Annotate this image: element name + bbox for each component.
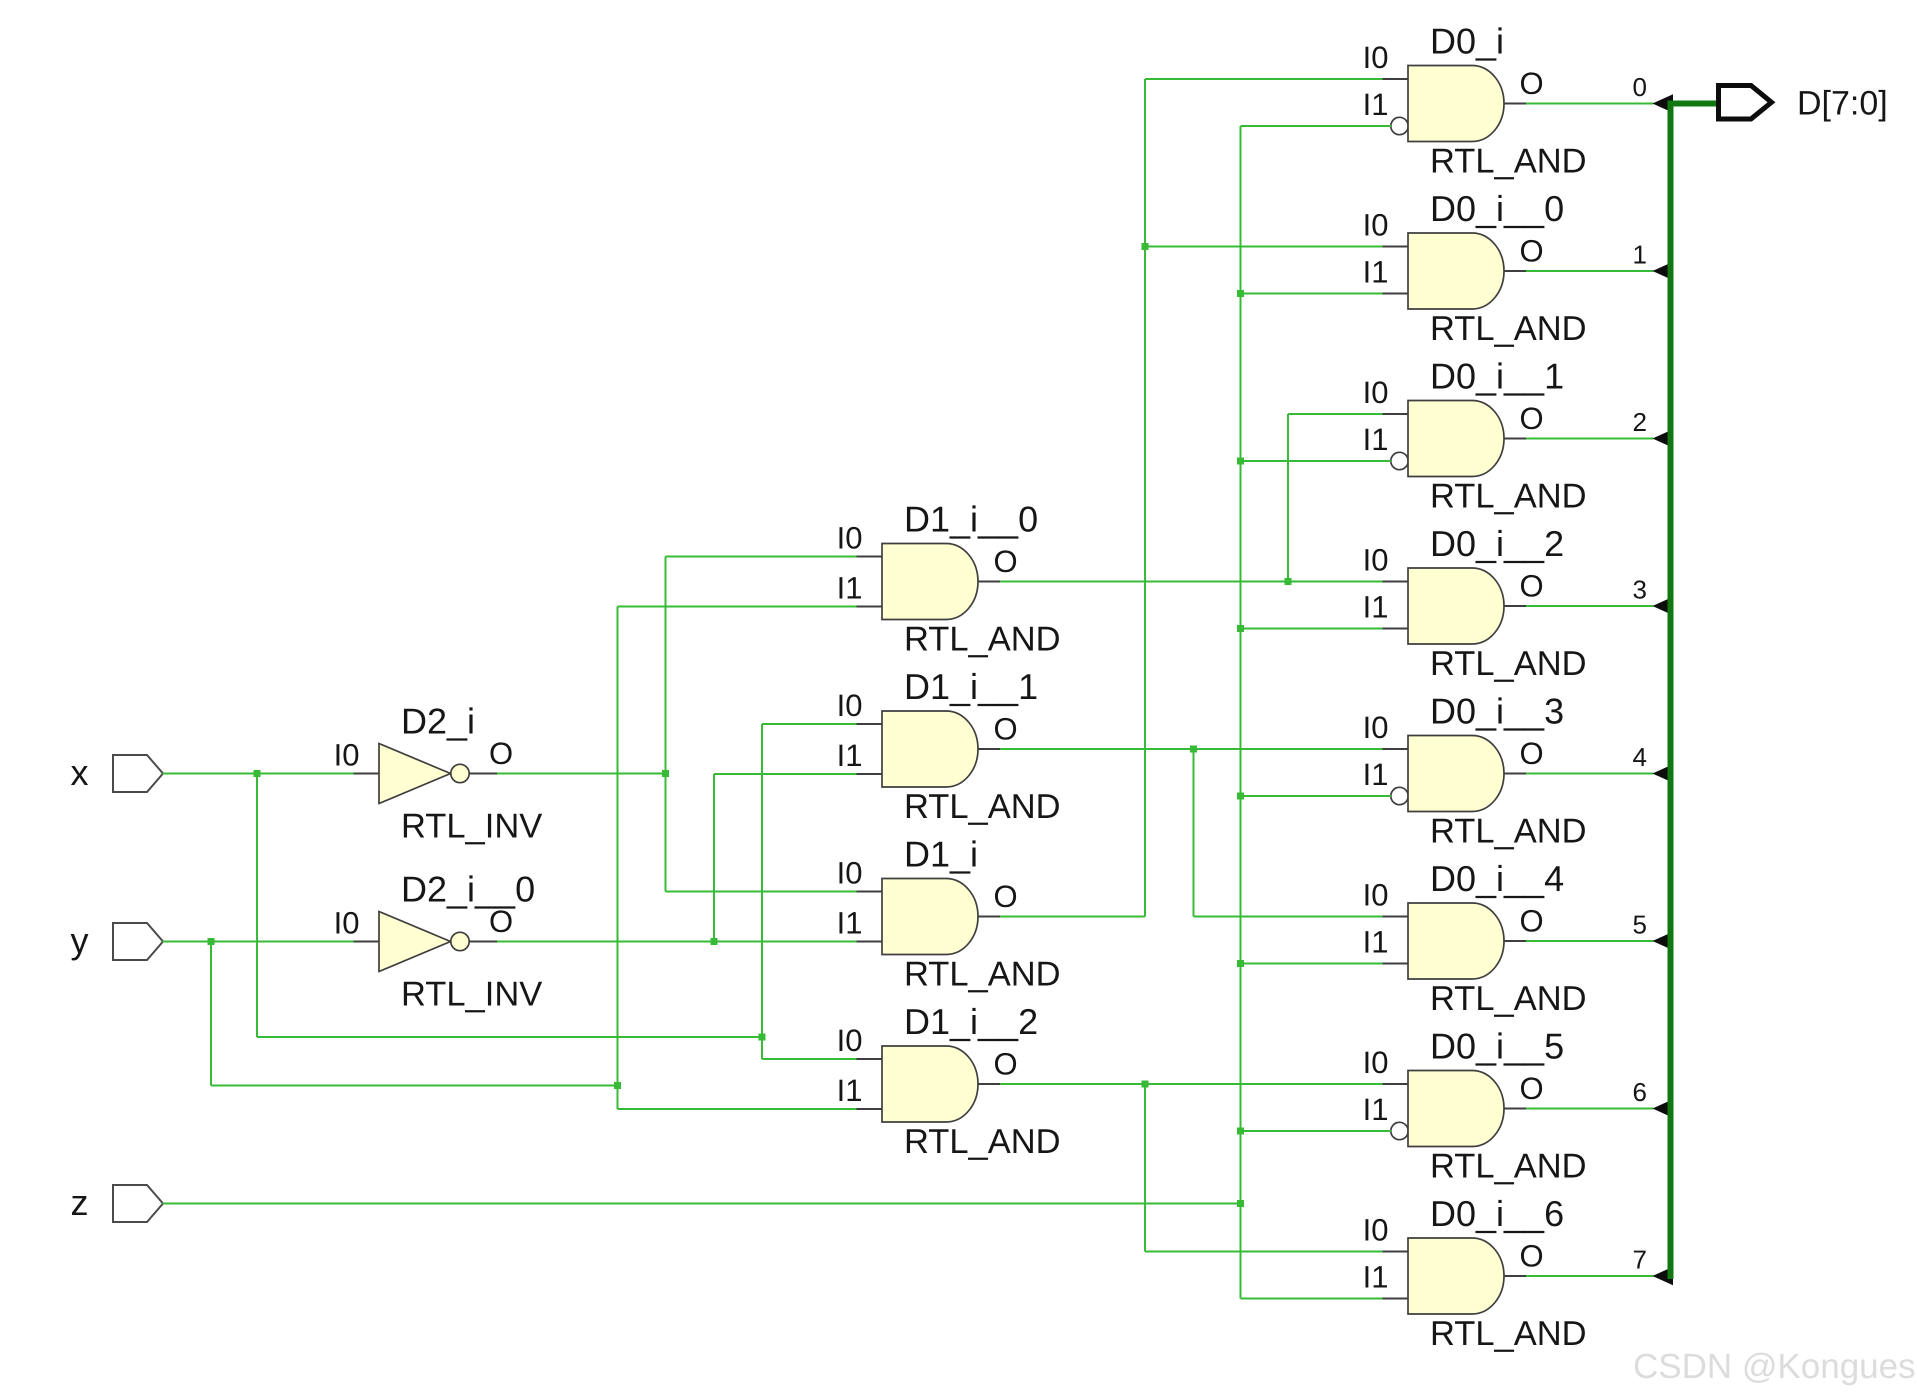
junction net z at trunk bbox=[1237, 1200, 1244, 1207]
bus tap arrowhead row 0 bbox=[1653, 94, 1674, 113]
svg-text:I0: I0 bbox=[837, 688, 863, 723]
AND gate D0_i__1 (RTL_AND) bbox=[1363, 356, 1587, 516]
svg-text:I1: I1 bbox=[837, 1073, 863, 1108]
AND gate D0_i__0 (RTL_AND) bbox=[1363, 188, 1587, 348]
svg-text:D[7:0]: D[7:0] bbox=[1797, 85, 1888, 123]
wire net z: vertical trunk along D0 column bbox=[1240, 126, 1242, 1299]
svg-text:RTL_AND: RTL_AND bbox=[904, 788, 1061, 826]
svg-text:I0: I0 bbox=[837, 1023, 863, 1058]
svg-text:O: O bbox=[1520, 1239, 1544, 1274]
svg-text:I0: I0 bbox=[1363, 40, 1389, 75]
svg-text:RTL_AND: RTL_AND bbox=[904, 956, 1061, 994]
svg-text:3: 3 bbox=[1633, 575, 1647, 605]
svg-text:D0_i__1: D0_i__1 bbox=[1430, 356, 1564, 397]
junction net z row6 bbox=[1237, 1128, 1244, 1135]
svg-text:I1: I1 bbox=[1363, 925, 1389, 960]
junction D1_i_out row1 bbox=[1142, 243, 1149, 250]
input port x bbox=[71, 752, 164, 793]
svg-text:RTL_AND: RTL_AND bbox=[1430, 1315, 1587, 1353]
svg-text:RTL_AND: RTL_AND bbox=[904, 621, 1061, 659]
bus tap arrowhead row 5 bbox=[1653, 932, 1674, 951]
wire net D1_i__2_out: into D0_i__6 pin I0 bbox=[1145, 1251, 1383, 1253]
svg-text:D0_i__2: D0_i__2 bbox=[1430, 523, 1564, 564]
svg-text:O: O bbox=[1520, 736, 1544, 771]
AND gate D1_i (RTL_AND) bbox=[837, 834, 1061, 994]
wire net notx: into D1_i__0 pin I0 bbox=[666, 556, 857, 558]
svg-text:I1: I1 bbox=[1363, 1260, 1389, 1295]
wire net y: horizontal run to D1 column bbox=[211, 1085, 618, 1087]
svg-text:I1: I1 bbox=[837, 738, 863, 773]
svg-text:x: x bbox=[71, 752, 89, 793]
wire D0 output row 5 to bus tap bbox=[1526, 940, 1654, 942]
svg-text:D0_i__4: D0_i__4 bbox=[1430, 858, 1564, 899]
svg-text:D0_i: D0_i bbox=[1430, 21, 1504, 62]
svg-text:RTL_AND: RTL_AND bbox=[1430, 1148, 1587, 1186]
svg-text:RTL_AND: RTL_AND bbox=[1430, 310, 1587, 348]
svg-text:6: 6 bbox=[1633, 1077, 1647, 1107]
bus tap arrowhead row 2 bbox=[1653, 429, 1674, 448]
svg-text:I1: I1 bbox=[1363, 87, 1389, 122]
svg-text:RTL_AND: RTL_AND bbox=[1430, 478, 1587, 516]
svg-text:RTL_AND: RTL_AND bbox=[1430, 645, 1587, 683]
AND gate D0_i__4 (RTL_AND) bbox=[1363, 858, 1587, 1018]
wire net z: into D0_i__4 pin I1 bbox=[1241, 963, 1383, 965]
wire net x: port x to inverter D2_i input bbox=[163, 773, 354, 775]
wire net y: vertical trunk bbox=[617, 607, 619, 1110]
svg-text:D0_i__3: D0_i__3 bbox=[1430, 691, 1564, 732]
wire net D1_i__0_out: east run to D0_i__2 pin I0 bbox=[1000, 581, 1383, 583]
wire D0 output row 3 to bus tap bbox=[1526, 605, 1654, 607]
svg-text:I1: I1 bbox=[1363, 1092, 1389, 1127]
wire net D1_i__2_out: east run to D0_i__5 pin I0 bbox=[1000, 1083, 1383, 1085]
svg-text:I1: I1 bbox=[1363, 590, 1389, 625]
output port D[7:0] bbox=[1719, 85, 1888, 123]
junction D1_i__1_out at branch bbox=[1190, 746, 1197, 753]
AND gate D0_i__6 (RTL_AND) bbox=[1363, 1193, 1587, 1353]
input port y bbox=[71, 920, 164, 961]
svg-text:4: 4 bbox=[1633, 742, 1647, 772]
wire net x: vertical trunk bbox=[761, 724, 763, 1059]
svg-text:1: 1 bbox=[1633, 240, 1647, 270]
svg-text:D1_i__2: D1_i__2 bbox=[904, 1001, 1038, 1042]
wire net z: into D0_i__1 pin I1 bubble bbox=[1241, 460, 1392, 462]
svg-text:O: O bbox=[994, 879, 1018, 914]
wire net notx: inverter D2_i output east bbox=[497, 773, 666, 775]
svg-text:D1_i: D1_i bbox=[904, 834, 978, 875]
svg-text:O: O bbox=[1520, 1071, 1544, 1106]
wire net D1_i__0_out: into D0_i__1 pin I0 bbox=[1288, 413, 1383, 415]
junction net y at vertical trunk bbox=[614, 1082, 621, 1089]
junction net z row1 bbox=[1237, 290, 1244, 297]
wire net z: into D0_i__0 pin I1 bbox=[1241, 293, 1383, 295]
wire D0 output row 6 to bus tap bbox=[1526, 1108, 1654, 1110]
svg-text:D0_i__0: D0_i__0 bbox=[1430, 188, 1564, 229]
wire net notx: into D1_i pin I0 bbox=[666, 891, 857, 893]
bus tap arrowhead row 7 bbox=[1653, 1267, 1674, 1286]
svg-text:I0: I0 bbox=[1363, 710, 1389, 745]
inverter D2_i__0 (RTL_INV) bbox=[334, 869, 543, 1014]
junction net noty bbox=[711, 938, 718, 945]
svg-text:I1: I1 bbox=[1363, 422, 1389, 457]
wire net z: into D0_i__3 pin I1 bubble bbox=[1241, 795, 1392, 797]
svg-text:O: O bbox=[1520, 234, 1544, 269]
svg-text:I0: I0 bbox=[837, 521, 863, 556]
junction net notx bbox=[662, 770, 669, 777]
wire net D1_i_out: east run to trunk bbox=[1000, 916, 1145, 918]
svg-text:I1: I1 bbox=[1363, 255, 1389, 290]
AND gate D1_i__1 (RTL_AND) bbox=[837, 666, 1061, 826]
junction net z row2 bbox=[1237, 458, 1244, 465]
svg-text:RTL_INV: RTL_INV bbox=[401, 976, 542, 1014]
svg-text:RTL_INV: RTL_INV bbox=[401, 808, 542, 846]
wire net D1_i__1_out: into D0_i__4 pin I0 bbox=[1194, 916, 1383, 918]
AND gate D1_i__0 (RTL_AND) bbox=[837, 499, 1061, 659]
svg-text:D2_i__0: D2_i__0 bbox=[401, 869, 535, 910]
svg-text:I0: I0 bbox=[1363, 1045, 1389, 1080]
svg-text:I1: I1 bbox=[1363, 757, 1389, 792]
AND gate D0_i__3 (RTL_AND) bbox=[1363, 691, 1587, 851]
AND gate D0_i__5 (RTL_AND) bbox=[1363, 1026, 1587, 1186]
AND gate D1_i__2 (RTL_AND) bbox=[837, 1001, 1061, 1161]
wire net x: vertical branch down bbox=[256, 774, 258, 1038]
svg-text:I1: I1 bbox=[837, 906, 863, 941]
bus tap arrowhead row 4 bbox=[1653, 764, 1674, 783]
svg-text:D1_i__0: D1_i__0 bbox=[904, 499, 1038, 540]
svg-text:RTL_AND: RTL_AND bbox=[1430, 980, 1587, 1018]
wire net noty: into D1_i__1 pin I1 bbox=[714, 773, 857, 775]
wire net y: vertical branch down bbox=[210, 942, 212, 1086]
svg-text:O: O bbox=[1520, 904, 1544, 939]
wire net y: into D1_i__2 pin I1 bbox=[618, 1108, 857, 1110]
svg-text:O: O bbox=[489, 736, 513, 771]
svg-text:y: y bbox=[71, 920, 89, 961]
bus D[7:0] vertical trunk bbox=[1668, 101, 1674, 1280]
junction D1_i__0_out at branch bbox=[1285, 578, 1292, 585]
wire D0 output row 0 to bus tap bbox=[1526, 103, 1654, 105]
input port z bbox=[71, 1182, 164, 1223]
wire net D1_i__0_out: vertical branch up bbox=[1287, 414, 1289, 582]
svg-text:2: 2 bbox=[1633, 407, 1647, 437]
wire D0 output row 2 to bus tap bbox=[1526, 438, 1654, 440]
junction D1_i__2_out at branch bbox=[1142, 1081, 1149, 1088]
svg-text:O: O bbox=[994, 712, 1018, 747]
svg-text:5: 5 bbox=[1633, 910, 1647, 940]
wire net y: into D1_i__0 pin I1 bbox=[618, 606, 857, 608]
svg-text:0: 0 bbox=[1633, 72, 1647, 102]
svg-text:D1_i__1: D1_i__1 bbox=[904, 666, 1038, 707]
svg-text:z: z bbox=[71, 1182, 89, 1223]
svg-text:O: O bbox=[994, 544, 1018, 579]
bus tap arrowhead row 6 bbox=[1653, 1099, 1674, 1118]
wire D0 output row 1 to bus tap bbox=[1526, 270, 1654, 272]
wire D0 output row 7 to bus tap bbox=[1526, 1275, 1654, 1277]
svg-text:I0: I0 bbox=[334, 738, 360, 773]
svg-text:I0: I0 bbox=[334, 906, 360, 941]
wire net y: port y to inverter D2_i__0 input bbox=[163, 941, 354, 943]
wire net D1_i__2_out: vertical branch down bbox=[1144, 1084, 1146, 1252]
svg-text:CSDN @Kongues: CSDN @Kongues bbox=[1633, 1347, 1916, 1386]
svg-text:D2_i: D2_i bbox=[401, 701, 475, 742]
svg-text:O: O bbox=[1520, 569, 1544, 604]
wire net D1_i_out: into D0_i__0 pin I0 bbox=[1145, 246, 1383, 248]
wire D0 output row 4 to bus tap bbox=[1526, 773, 1654, 775]
wire net z: port z east to trunk bbox=[163, 1203, 1241, 1205]
bus D[7:0] stub to output port bbox=[1668, 101, 1719, 107]
wire net z: into D0_i pin I1 bubble bbox=[1241, 125, 1392, 127]
svg-text:I0: I0 bbox=[1363, 375, 1389, 410]
wire net z: into D0_i__6 pin I1 bbox=[1241, 1298, 1383, 1300]
inverter D2_i (RTL_INV) bbox=[334, 701, 543, 846]
wire net D1_i__1_out: vertical branch down bbox=[1193, 749, 1195, 917]
AND gate D0_i__2 (RTL_AND) bbox=[1363, 523, 1587, 683]
junction net x at vertical trunk bbox=[759, 1034, 766, 1041]
bus tap arrowhead row 1 bbox=[1653, 262, 1674, 281]
svg-text:RTL_AND: RTL_AND bbox=[1430, 143, 1587, 181]
wire net z: into D0_i__2 pin I1 bbox=[1241, 628, 1383, 630]
junction on net x bbox=[254, 770, 261, 777]
svg-text:I1: I1 bbox=[837, 571, 863, 606]
svg-text:O: O bbox=[1520, 401, 1544, 436]
svg-text:RTL_AND: RTL_AND bbox=[1430, 813, 1587, 851]
svg-text:O: O bbox=[994, 1047, 1018, 1082]
wire net D1_i_out: vertical trunk up bbox=[1144, 79, 1146, 917]
svg-text:I0: I0 bbox=[1363, 878, 1389, 913]
svg-text:7: 7 bbox=[1633, 1245, 1647, 1275]
wire net notx: vertical trunk bbox=[665, 557, 667, 892]
svg-text:I0: I0 bbox=[1363, 208, 1389, 243]
wire net noty: inverter D2_i__0 output into D1_i pin I1 bbox=[497, 941, 857, 943]
wire net z: into D0_i__5 pin I1 bubble bbox=[1241, 1130, 1392, 1132]
junction net z row5 bbox=[1237, 960, 1244, 967]
svg-text:D0_i__5: D0_i__5 bbox=[1430, 1026, 1564, 1067]
bus tap arrowhead row 3 bbox=[1653, 597, 1674, 616]
svg-text:I0: I0 bbox=[1363, 1213, 1389, 1248]
AND gate D0_i (RTL_AND) bbox=[1363, 21, 1587, 181]
svg-text:RTL_AND: RTL_AND bbox=[904, 1123, 1061, 1161]
wire net noty: vertical branch up bbox=[713, 774, 715, 942]
svg-text:I0: I0 bbox=[837, 856, 863, 891]
wire net D1_i__1_out: east run to D0_i__3 pin I0 bbox=[1000, 748, 1383, 750]
wire net x: horizontal run to D1 column bbox=[257, 1036, 762, 1038]
wire net x: into D1_i__2 pin I0 bbox=[762, 1058, 857, 1060]
svg-text:O: O bbox=[1520, 66, 1544, 101]
junction net z row3 bbox=[1237, 625, 1244, 632]
junction net z row4 bbox=[1237, 793, 1244, 800]
wire net D1_i_out: into D0_i pin I0 bbox=[1145, 78, 1383, 80]
svg-text:I0: I0 bbox=[1363, 543, 1389, 578]
svg-text:D0_i__6: D0_i__6 bbox=[1430, 1193, 1564, 1234]
wire net x: into D1_i__1 pin I0 bbox=[762, 723, 857, 725]
junction on net y bbox=[208, 938, 215, 945]
